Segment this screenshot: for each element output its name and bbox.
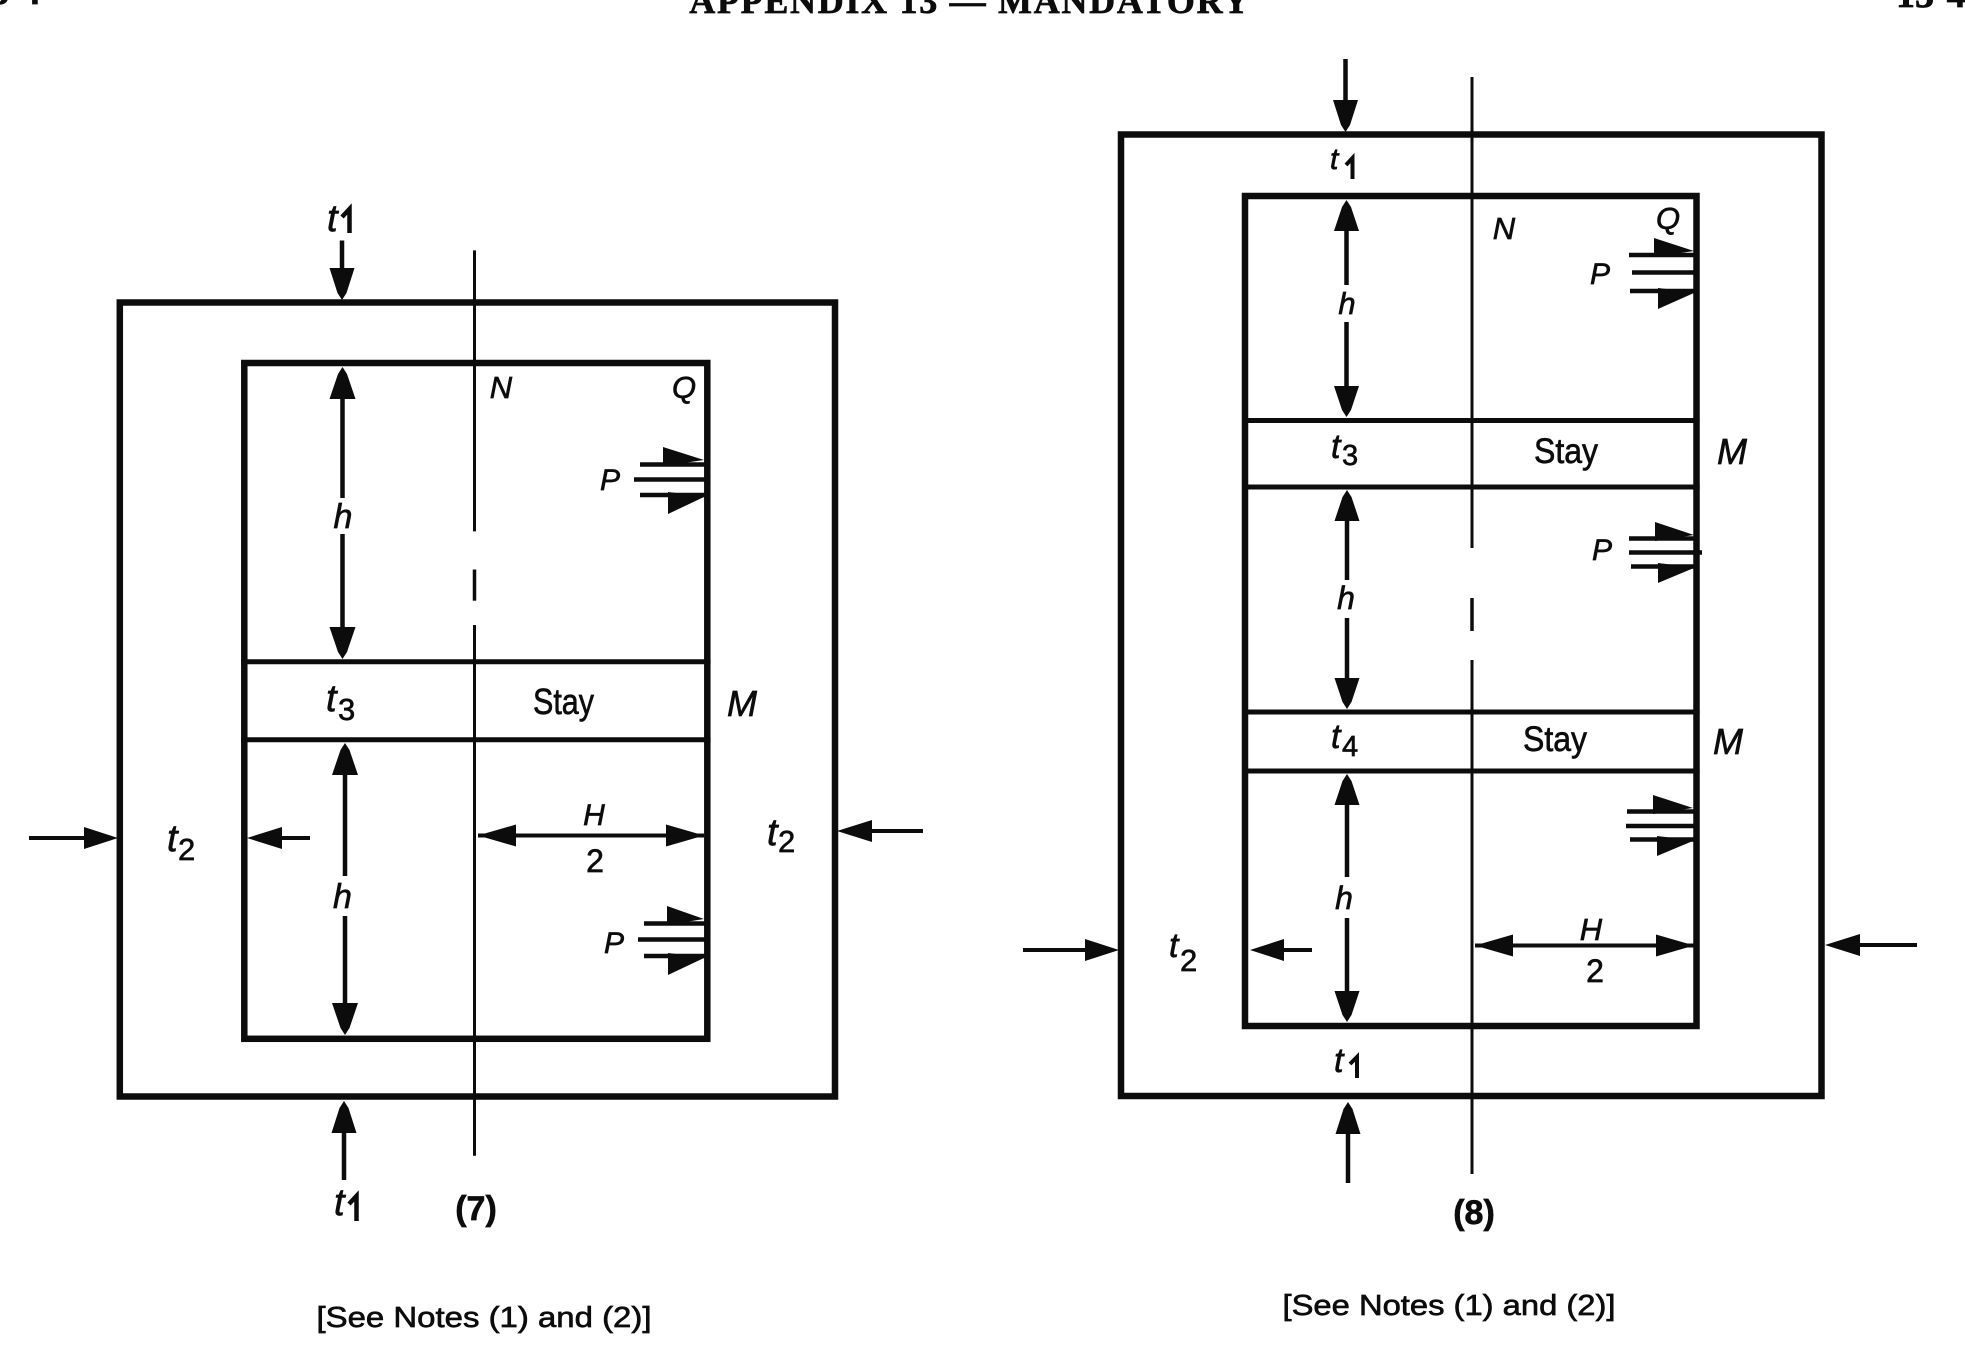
svg-text:h: h	[1338, 286, 1355, 321]
fig8 outer shell rectangle	[1121, 135, 1822, 1097]
fig7 vertical centerline lower segment	[473, 625, 476, 1156]
fig8 left inner wall arrow	[1250, 939, 1312, 961]
svg-text:APPENDIX 13 — MANDATORY: APPENDIX 13 — MANDATORY	[689, 0, 1251, 21]
svg-text:(8): (8)	[1453, 1194, 1495, 1232]
svg-text:H: H	[583, 799, 605, 832]
fig7 H/2 dimension arrow	[478, 825, 704, 847]
svg-text:Stay: Stay	[533, 681, 594, 722]
fig8 stay band 1 top line	[1242, 418, 1700, 423]
fig8 left t2 outside arrow	[1023, 939, 1119, 961]
svg-text:2: 2	[778, 824, 795, 859]
fig7 upper P load arrows	[634, 447, 705, 514]
fig8 stay band 1 bottom line	[1242, 485, 1700, 490]
svg-text:M: M	[1713, 721, 1743, 762]
svg-text:t: t	[1330, 143, 1340, 176]
fig7 right outside arrow	[837, 820, 923, 842]
svg-text:2: 2	[586, 843, 604, 879]
fig7 t1 bottom label	[334, 1182, 357, 1224]
fig8 H/2 dimension arrow	[1475, 935, 1694, 957]
fig8 stay band 2 bottom line	[1242, 769, 1700, 774]
page number top left fragment (cut off)	[0, 0, 41, 13]
svg-text:2: 2	[178, 832, 195, 867]
fig8 middle P load arrows	[1629, 522, 1702, 583]
svg-text:13-4: 13-4	[0, 0, 41, 13]
svg-text:(7): (7)	[455, 1190, 497, 1228]
svg-text:2: 2	[1180, 943, 1197, 978]
page number top right: 13-4 (cut off)	[1896, 0, 1965, 16]
svg-text:t: t	[1331, 428, 1342, 466]
svg-text:H: H	[1580, 912, 1603, 947]
fig7 stay band bottom line	[241, 737, 711, 742]
fig7 vertical centerline upper segment	[473, 250, 476, 531]
fig8 t1 bottom label	[1334, 1042, 1357, 1080]
fig7 centerline dash	[473, 570, 477, 601]
fig7 lower h dimension arrow	[332, 743, 358, 1035]
svg-text:P: P	[1592, 534, 1612, 567]
fig8 t1 top arrow	[1333, 59, 1358, 132]
svg-text:N: N	[1493, 211, 1516, 246]
fig7 t1 top arrow	[330, 241, 355, 301]
page header text (cut off at top): APPENDIX 13 - MANDATORY	[689, 0, 1251, 21]
fig8 upper P load arrows	[1629, 238, 1695, 309]
svg-text:P: P	[600, 464, 620, 497]
svg-text:N: N	[490, 370, 513, 405]
svg-text:3: 3	[1342, 440, 1358, 472]
fig7 inner vessel rectangle	[244, 363, 707, 1039]
fig8 centerline dash	[1470, 598, 1474, 631]
fig7 lower P load arrows	[638, 906, 705, 975]
fig7 H/2 fraction labels	[583, 799, 605, 879]
svg-text:t: t	[327, 198, 339, 240]
fig8 H/2 fraction labels	[1580, 912, 1604, 989]
svg-text:2: 2	[1586, 953, 1604, 989]
svg-text:[See Notes (1) and (2)]: [See Notes (1) and (2)]	[317, 1302, 652, 1334]
svg-text:4: 4	[1342, 731, 1358, 763]
fig7 left t2 label	[167, 818, 195, 867]
fig8 vertical centerline upper segment	[1471, 77, 1474, 548]
svg-text:h: h	[334, 498, 353, 536]
svg-text:h: h	[1335, 880, 1353, 916]
svg-text:t: t	[1169, 927, 1180, 965]
fig8 upper h dimension arrow	[1334, 200, 1359, 417]
svg-text:[See Notes (1) and (2)]: [See Notes (1) and (2)]	[1283, 1290, 1616, 1322]
fig8 t1 top label	[1330, 143, 1353, 179]
fig8 left t2 label	[1169, 927, 1197, 978]
fig7 outer shell rectangle	[120, 303, 835, 1097]
fig8 stay band 2 top line	[1242, 710, 1700, 715]
fig8 lower load arrows (unlabelled P)	[1626, 795, 1695, 856]
svg-text:t: t	[1331, 718, 1342, 756]
fig7 right t2 label	[767, 812, 795, 859]
svg-text:Stay: Stay	[1534, 432, 1598, 471]
fig7 upper h dimension arrow	[330, 367, 356, 659]
svg-text:Stay: Stay	[1523, 720, 1587, 759]
svg-text:3: 3	[338, 692, 355, 727]
fig8 t3 stay thickness label	[1331, 428, 1358, 472]
svg-text:M: M	[1717, 431, 1747, 472]
fig8 t1 bottom arrow	[1336, 1102, 1361, 1183]
svg-text:M: M	[727, 683, 757, 724]
fig8 middle h dimension arrow	[1335, 490, 1360, 709]
fig7 t1 bottom arrow	[332, 1101, 357, 1180]
svg-text:13-4: 13-4	[1896, 0, 1965, 16]
fig7 stay band top line	[241, 659, 711, 664]
fig8 right outside arrow	[1825, 934, 1917, 956]
svg-text:t: t	[1334, 1042, 1345, 1080]
svg-text:h: h	[333, 878, 352, 916]
fig8 vertical centerline lower segment	[1471, 660, 1474, 1174]
svg-text:t: t	[326, 678, 338, 720]
fig8 t4 stay thickness label	[1331, 718, 1358, 763]
fig8 inner vessel rectangle	[1245, 196, 1697, 1026]
fig7 left t2 outside arrow	[29, 827, 118, 849]
svg-text:P: P	[604, 927, 624, 960]
svg-text:Q: Q	[1656, 201, 1680, 236]
svg-text:h: h	[1337, 580, 1355, 616]
fig8 lower h dimension arrow	[1335, 774, 1360, 1022]
svg-text:Q: Q	[672, 370, 696, 405]
fig7 left inner wall arrow	[247, 827, 310, 849]
svg-text:P: P	[1590, 258, 1610, 291]
fig7 t3 stay thickness label	[326, 678, 355, 727]
fig7 t1 top label	[327, 198, 350, 240]
svg-text:t: t	[334, 1182, 346, 1224]
